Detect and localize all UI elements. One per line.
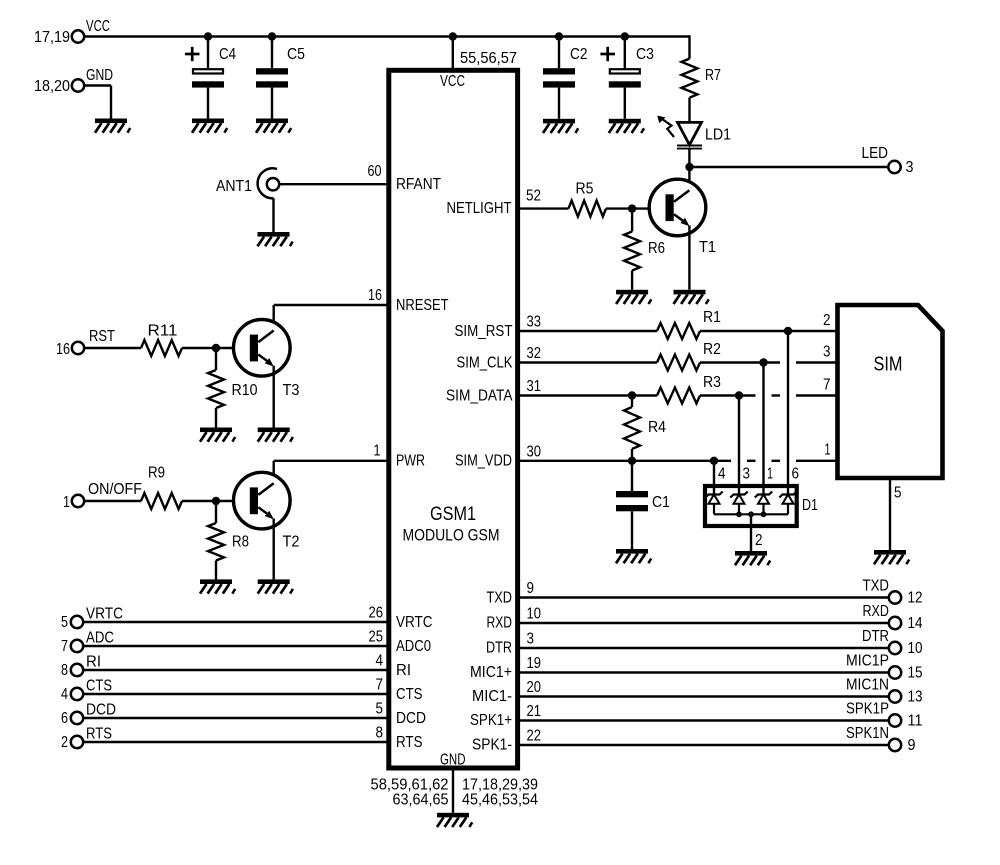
svg-text:6: 6 [792, 466, 800, 483]
svg-text:RI: RI [86, 654, 101, 671]
svg-text:R11: R11 [148, 323, 178, 340]
IC label RXD [487, 615, 513, 632]
IC label SPK1- [472, 737, 512, 754]
svg-text:GND: GND [440, 752, 466, 769]
label 12 terminal [908, 590, 923, 607]
IC name GSM1 [430, 503, 476, 525]
svg-text:45,46,53,54: 45,46,53,54 [462, 792, 538, 809]
svg-text:22: 22 [527, 728, 542, 745]
pin label 20 [527, 679, 542, 696]
wire RXD row [518, 622, 889, 624]
IC label SIM_CLK [457, 354, 514, 371]
terminal RXD 14 [889, 617, 901, 629]
svg-text:8: 8 [61, 662, 68, 679]
svg-text:VRTC: VRTC [86, 606, 123, 623]
IC label SIM_VDD [455, 453, 512, 470]
wire R5 to T1 base [606, 207, 666, 209]
svg-text:C3: C3 [636, 46, 654, 63]
label SIM [874, 353, 903, 376]
pin label 1 D1 [767, 466, 773, 483]
svg-text:10: 10 [908, 640, 923, 657]
wire R11 to T3 base [182, 347, 250, 349]
pin label 3 D1 [743, 466, 751, 483]
svg-text:8: 8 [376, 725, 384, 742]
IC label RFANT [396, 176, 441, 193]
svg-text:60: 60 [368, 163, 382, 180]
wire MIC1N row [518, 695, 889, 697]
label CTS [86, 678, 112, 695]
svg-text:11: 11 [908, 713, 923, 730]
svg-text:R9: R9 [148, 465, 165, 482]
label VCC [86, 18, 110, 35]
svg-text:TXD: TXD [487, 589, 513, 606]
pin label 33 [527, 314, 542, 331]
svg-text:C4: C4 [219, 46, 236, 63]
label DTR [862, 628, 889, 645]
svg-text:R8: R8 [232, 534, 249, 551]
svg-text:D1: D1 [802, 497, 818, 514]
svg-text:1: 1 [767, 466, 773, 483]
svg-text:RTS: RTS [396, 734, 423, 751]
IC label VRTC [396, 614, 433, 631]
IC U-GSM1 MODULO GSM body [389, 70, 518, 768]
wire R10 top [215, 348, 217, 370]
ground C4 [192, 119, 227, 133]
wire VRTC row [84, 621, 389, 623]
svg-text:MIC1+: MIC1+ [470, 664, 512, 681]
svg-text:LED: LED [862, 145, 889, 162]
label T1 [699, 239, 716, 256]
svg-text:1: 1 [63, 494, 70, 511]
svg-text:4: 4 [61, 686, 68, 703]
svg-text:GSM1: GSM1 [430, 503, 476, 525]
label R2 [703, 341, 721, 358]
label 4 terminal [61, 686, 68, 703]
wire R2 to SIM pin 3 [700, 361, 838, 363]
pin label 5 SIM [894, 485, 902, 502]
svg-text:VCC: VCC [440, 73, 465, 90]
wire C2 top [558, 37, 560, 69]
svg-text:RTS: RTS [86, 726, 112, 743]
junction C4 [204, 32, 212, 40]
svg-text:RFANT: RFANT [396, 176, 441, 193]
svg-text:NETLIGHT: NETLIGHT [447, 200, 512, 217]
label 2 terminal [61, 734, 68, 751]
wire C3 bottom [624, 88, 626, 119]
ground C2 [543, 119, 578, 133]
svg-text:7: 7 [823, 377, 831, 394]
pin label 30 [527, 443, 542, 460]
svg-text:4: 4 [376, 653, 384, 670]
ground C5 [256, 119, 291, 133]
svg-text:ON/OFF: ON/OFF [88, 481, 142, 498]
svg-text:VRTC: VRTC [396, 614, 433, 631]
terminal RI 8 [71, 664, 83, 676]
ground IC GND [437, 813, 472, 827]
wire R3 to SIM pin 7 [700, 394, 838, 396]
label 5 terminal [61, 614, 68, 631]
wire NRESET pin 16 [274, 305, 389, 331]
label 9 terminal [908, 737, 916, 754]
svg-text:21: 21 [527, 703, 542, 720]
ground R8 [200, 579, 235, 593]
label GND [86, 67, 113, 84]
svg-text:R4: R4 [648, 419, 666, 436]
wire SPK1P row [518, 719, 889, 721]
svg-text:C5: C5 [287, 46, 305, 63]
svg-text:4: 4 [718, 466, 726, 483]
label R8 [232, 534, 249, 551]
svg-text:C1: C1 [652, 494, 670, 511]
pin label 4 [718, 466, 726, 483]
IC label SIM_RST [455, 323, 513, 340]
ground C3 [609, 119, 644, 133]
wire D1 pin 6 [787, 331, 789, 495]
svg-text:10: 10 [527, 606, 542, 623]
label C1 [652, 494, 670, 511]
ground SIM [874, 550, 909, 564]
resistor R4 [624, 407, 640, 449]
polarity plus C4 [185, 47, 200, 61]
wire D1 pin 1 [762, 363, 764, 495]
IC label SPK1+ [470, 712, 512, 729]
svg-text:20: 20 [527, 679, 542, 696]
svg-text:17,19: 17,19 [34, 29, 70, 46]
wire ADC row [84, 645, 389, 647]
IC label GND [440, 752, 466, 769]
pin label 3 [527, 631, 535, 648]
pin label 32 [527, 345, 542, 362]
wire R1 to SIM pin 2 [700, 330, 838, 332]
pin label 21 [527, 703, 542, 720]
svg-text:MODULO GSM: MODULO GSM [403, 526, 500, 545]
svg-text:63,64,65: 63,64,65 [393, 792, 449, 809]
label SPK1P [846, 701, 889, 718]
pin label 7 [376, 677, 384, 694]
wire R7 to LD1 [688, 98, 690, 123]
svg-text:GND: GND [86, 67, 113, 84]
wire T1 emitter [688, 226, 690, 290]
wire DCD row [84, 717, 389, 719]
junction C1 / R4 bottom [628, 457, 636, 465]
svg-text:3: 3 [906, 159, 914, 176]
pin label 5 [376, 701, 384, 718]
pin label 58,59,61,62 [371, 777, 449, 794]
svg-text:5: 5 [894, 485, 902, 502]
wire SIM_RST pin 33 [518, 330, 657, 332]
svg-text:31: 31 [527, 378, 542, 395]
wire LED node to terminal [690, 166, 889, 168]
IC label ADC0 [396, 638, 431, 655]
wire R8 top [215, 501, 217, 523]
wire ON/OFF to R9 [84, 500, 142, 502]
pin label 52 [526, 188, 541, 205]
svg-text:30: 30 [527, 443, 542, 460]
pin label 6 [792, 466, 800, 483]
label R6 [648, 240, 665, 257]
terminal MIC1P 15 [889, 666, 901, 678]
resistor R10 [208, 370, 224, 408]
wire VCC rail corner to R7 [688, 35, 690, 58]
terminal GND 18,20 [72, 79, 84, 91]
pin label 7 SIM [823, 377, 831, 394]
svg-text:2: 2 [755, 532, 763, 549]
terminal CTS 4 [71, 688, 83, 700]
transistor T1 [649, 179, 706, 236]
ground GND terminal [95, 119, 130, 133]
capacitor C3 [609, 69, 641, 87]
label MIC1P [846, 653, 889, 670]
svg-text:MIC1-: MIC1- [472, 688, 512, 705]
junction D1 pin 1 tap [759, 358, 767, 366]
transistor T3 [233, 320, 290, 377]
wire MIC1P row [518, 671, 889, 673]
wire GND terminal [84, 86, 112, 119]
IC label SIM_DATA [446, 387, 513, 404]
wire R4 leads [631, 396, 633, 461]
pin label 1 SIM [825, 442, 831, 459]
svg-text:ANT1: ANT1 [216, 178, 252, 195]
wire DTR row [518, 647, 889, 649]
pin label 26 [369, 605, 384, 622]
resistor R8 [208, 523, 224, 561]
svg-text:33: 33 [527, 314, 542, 331]
capacitor C1 [616, 491, 648, 511]
svg-text:PWR: PWR [396, 453, 425, 470]
label 10 terminal [908, 640, 923, 657]
label R7 [705, 67, 721, 84]
label 7 terminal [61, 638, 68, 655]
label 6 terminal [61, 710, 68, 727]
wire IC GND pin [452, 768, 454, 813]
IC label RTS [396, 734, 423, 751]
terminal ADC 7 [71, 640, 83, 652]
svg-text:DCD: DCD [86, 702, 116, 719]
pin label 8 [376, 725, 384, 742]
svg-text:SPK1+: SPK1+ [470, 712, 512, 729]
svg-text:R3: R3 [703, 374, 721, 391]
junction R4 top [628, 391, 636, 399]
svg-text:32: 32 [527, 345, 542, 362]
terminal VRTC 5 [71, 616, 83, 628]
label LED [862, 145, 889, 162]
wire SPK1N row [518, 744, 889, 746]
pin label 2 SIM [823, 312, 831, 329]
wire C2 bottom [558, 88, 560, 119]
junction C2 [555, 32, 563, 40]
junction C5 [268, 32, 276, 40]
wire CTS row [84, 693, 389, 695]
IC label MIC1- [472, 688, 512, 705]
svg-text:2: 2 [61, 734, 68, 751]
junction LED node [685, 163, 693, 171]
svg-text:7: 7 [61, 638, 68, 655]
wire ANT1 to ground [272, 198, 274, 232]
label R11 [148, 323, 178, 340]
svg-text:3: 3 [527, 631, 535, 648]
svg-text:SIM_DATA: SIM_DATA [446, 387, 513, 404]
IC name MODULO GSM [403, 526, 500, 545]
ESD diode D1 element 2 [730, 492, 747, 515]
label RI [86, 654, 101, 671]
ground R10 [200, 428, 235, 442]
svg-text:MIC1P: MIC1P [846, 653, 889, 670]
wire C5 bottom [271, 88, 273, 119]
wire VCC pin 55,56,57 [452, 37, 454, 71]
label ON/OFF [88, 481, 142, 498]
resistor R3 [657, 388, 700, 404]
svg-text:16: 16 [368, 287, 382, 304]
svg-text:DCD: DCD [396, 710, 426, 727]
svg-text:5: 5 [61, 614, 68, 631]
pin label 3 SIM [823, 344, 831, 361]
wire SIM_DATA pin 31 [518, 394, 657, 396]
ground T2 [258, 579, 293, 593]
wire R9 to T2 base [182, 500, 250, 502]
wire PWR pin 1 [274, 461, 389, 484]
pin label 25 [369, 629, 384, 646]
wire SIM_VDD pin 30 [518, 460, 838, 462]
IC label CTS [396, 686, 423, 703]
pin label 31 [527, 378, 542, 395]
label C3 [636, 46, 654, 63]
svg-text:16: 16 [56, 341, 70, 358]
wire C1 bottom [631, 511, 633, 549]
ESD diode D1 element 3 [755, 492, 772, 515]
pin label 10 [527, 606, 542, 623]
wire R10 bottom [215, 408, 217, 428]
label C4 [219, 46, 236, 63]
label TXD [863, 578, 890, 595]
junction D1 pin 4 tap [710, 457, 718, 465]
svg-text:R7: R7 [705, 67, 721, 84]
capacitor C5 [256, 68, 288, 87]
pin label 9 [527, 580, 535, 597]
svg-text:VCC: VCC [86, 18, 110, 35]
label ANT1 [216, 178, 252, 195]
svg-text:2: 2 [823, 312, 831, 329]
svg-text:DTR: DTR [486, 640, 512, 657]
svg-text:SIM_VDD: SIM_VDD [455, 453, 512, 470]
svg-text:13: 13 [908, 689, 923, 706]
LED LD1 [657, 116, 702, 149]
pin label 17,18,29,39 [462, 777, 538, 794]
pin label 1 [374, 443, 381, 460]
SIM card connector body [838, 305, 943, 478]
svg-text:RXD: RXD [487, 615, 513, 632]
svg-text:RXD: RXD [863, 603, 890, 620]
wire C1 top [631, 461, 633, 491]
svg-text:6: 6 [61, 710, 68, 727]
terminal LED 3 [888, 161, 900, 173]
resistor R1 [657, 323, 700, 339]
label DCD [86, 702, 116, 719]
label R1 [703, 309, 721, 326]
pin label 19 [527, 655, 542, 672]
wire D1 pin 3 [738, 396, 740, 495]
resistor R9 [141, 493, 182, 509]
wire SIM_CLK pin 32 [518, 361, 657, 363]
svg-text:5: 5 [376, 701, 384, 718]
terminal SPK1P 11 [889, 714, 901, 726]
terminal RST 16 [72, 342, 84, 354]
wire NETLIGHT pin 52 [518, 207, 569, 209]
svg-text:26: 26 [369, 605, 384, 622]
svg-text:T2: T2 [283, 534, 300, 551]
svg-text:18,20: 18,20 [34, 78, 70, 95]
terminal TXD 12 [889, 591, 901, 603]
ground C1 [616, 549, 651, 563]
svg-text:ADC: ADC [86, 630, 114, 647]
resistor R5 [569, 201, 607, 217]
terminal VCC 17,19 [72, 30, 84, 42]
label 14 terminal [908, 615, 923, 632]
label R4 [648, 419, 666, 436]
label MIC1N [846, 677, 889, 694]
label T3 [283, 382, 300, 399]
wire D1 pin 2 to ground [750, 516, 752, 551]
svg-text:DTR: DTR [862, 628, 889, 645]
label 11 terminal [908, 713, 923, 730]
wire TXD row [518, 596, 889, 598]
label 8 terminal [61, 662, 68, 679]
pin label 45,46,53,54 [462, 792, 538, 809]
junction T1 base / R6 [628, 204, 636, 212]
svg-text:C2: C2 [570, 46, 588, 63]
wire VCC rail [84, 35, 690, 37]
svg-text:15: 15 [908, 665, 923, 682]
IC label TXD [487, 589, 513, 606]
pin label 16 [368, 287, 382, 304]
terminal ON/OFF 1 [72, 495, 84, 507]
wire C3 top [624, 37, 626, 70]
wire R8 bottom [215, 561, 217, 580]
ESD diode D1 element 4 [779, 492, 796, 515]
label 13 terminal [908, 689, 923, 706]
ground D1 [735, 551, 770, 565]
svg-text:12: 12 [908, 590, 923, 607]
svg-text:19: 19 [527, 655, 542, 672]
svg-text:3: 3 [743, 466, 751, 483]
IC label DCD [396, 710, 426, 727]
capacitor C2 [543, 68, 575, 87]
label R5 [576, 181, 594, 198]
label 15 terminal [908, 665, 923, 682]
svg-text:MIC1N: MIC1N [846, 677, 889, 694]
wire C4 top [207, 37, 209, 70]
label SPK1N [846, 725, 889, 742]
pin label 60 [368, 163, 382, 180]
ground T3 [258, 428, 293, 442]
svg-text:ADC0: ADC0 [396, 638, 431, 655]
wire R6 bottom [631, 271, 633, 290]
svg-text:3: 3 [823, 344, 831, 361]
polarity plus C3 [600, 47, 615, 61]
svg-text:7: 7 [376, 677, 384, 694]
svg-text:RST: RST [89, 328, 115, 345]
label 3 [906, 159, 914, 176]
svg-text:SIM_CLK: SIM_CLK [457, 354, 514, 371]
junction D1 pin 3 tap [735, 391, 743, 399]
junction C3 [621, 32, 629, 40]
ESD diode D1 element 1 [705, 492, 722, 515]
svg-text:1: 1 [374, 443, 381, 460]
label RTS [86, 726, 112, 743]
IC label NRESET [396, 297, 449, 314]
pin label 2 D1 [755, 532, 763, 549]
svg-text:55,56,57: 55,56,57 [460, 50, 517, 67]
resistor R2 [657, 355, 700, 371]
